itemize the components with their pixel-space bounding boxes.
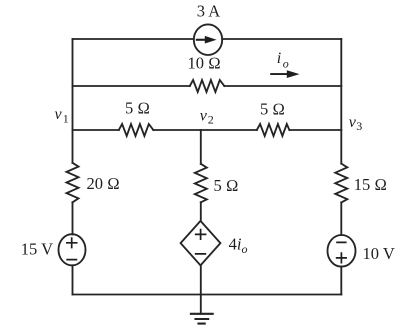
svg-text:1: 1 xyxy=(63,111,69,125)
svg-text:10 Ω: 10 Ω xyxy=(187,54,220,73)
svg-text:20 Ω: 20 Ω xyxy=(87,174,120,193)
svg-text:15 Ω: 15 Ω xyxy=(354,175,387,194)
svg-text:15 V: 15 V xyxy=(21,239,53,258)
svg-text:5 Ω: 5 Ω xyxy=(214,176,239,195)
svg-text:5 Ω: 5 Ω xyxy=(125,99,150,118)
svg-text:3: 3 xyxy=(356,119,362,133)
svg-text:3 A: 3 A xyxy=(197,2,220,21)
svg-text:o: o xyxy=(283,57,289,71)
svg-text:v: v xyxy=(200,108,208,125)
svg-text:v: v xyxy=(55,106,63,123)
svg-text:10 V: 10 V xyxy=(363,244,395,263)
svg-text:2: 2 xyxy=(208,113,214,127)
svg-text:i: i xyxy=(277,50,281,67)
svg-text:5 Ω: 5 Ω xyxy=(260,100,285,119)
